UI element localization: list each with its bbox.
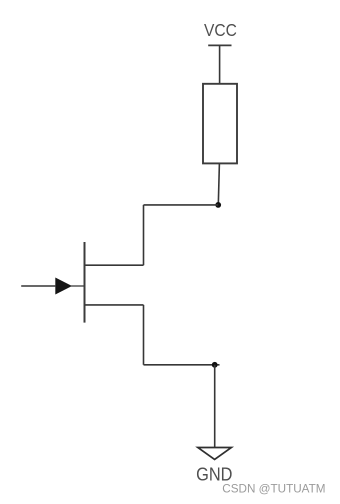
node B junction dot: [212, 362, 218, 368]
gate input arrowhead: [55, 278, 72, 295]
wire down to drain lead: [143, 205, 145, 265]
drain lead wire: [85, 264, 144, 266]
svg-text:VCC: VCC: [204, 20, 237, 40]
gate lead wire: [71, 285, 85, 287]
wire down from source lead: [143, 305, 145, 365]
ground symbol: [198, 448, 232, 460]
node A junction dot: [215, 202, 221, 208]
wire VCC to resistor: [219, 45, 221, 83]
source lead wire: [85, 304, 144, 306]
wire node A left: [144, 204, 219, 206]
svg-text:CSDN @TUTUATM: CSDN @TUTUATM: [222, 482, 325, 495]
net label GND: [196, 464, 232, 485]
wire resistor to node A: [218, 163, 219, 205]
wire right to node B: [144, 364, 220, 366]
resistor R1: [203, 84, 237, 164]
transistor Q1 body bar: [84, 242, 86, 323]
wire node B to ground: [214, 365, 216, 448]
power terminal VCC bar: [208, 44, 231, 46]
gate input wire: [21, 285, 55, 287]
net label VCC: [204, 20, 237, 40]
